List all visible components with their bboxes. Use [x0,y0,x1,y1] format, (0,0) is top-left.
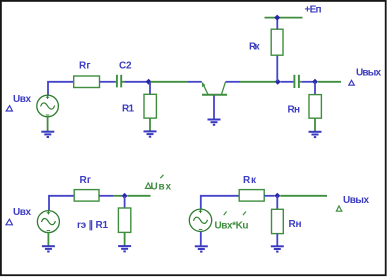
wire node down [124,196,126,208]
transistor Q1 base wire to ground [213,96,215,120]
emitter pin wire (blue) [188,81,202,83]
wire C3 to output node [302,81,313,83]
node junction dot collector/Rk [275,79,281,85]
svg-text:Rн: Rн [289,219,302,230]
node junction dot output [312,79,318,85]
svg-text:Uвых: Uвых [343,195,369,206]
source V1 circle [37,95,59,117]
wire node to U'vx (green) [128,195,151,197]
ground under re||R1 [118,246,131,251]
wire V3 to ground (blue) [200,232,202,247]
resistor Rn [309,95,321,119]
+Ep supply rail [265,17,303,19]
node junction dot Rk2/Rn2 [274,193,280,199]
svg-text:R1: R1 [122,103,134,114]
node triangle input [6,106,12,111]
source V1 plus mark [46,96,49,100]
ground under V1 [41,132,54,137]
resistor re||R1 [118,208,130,232]
svg-text:Rг: Rг [79,61,91,72]
wire Rk2 to node [264,195,274,197]
node triangle input bottom [6,219,12,225]
transistor Q1 emitter arrow [202,82,206,87]
resistor Rn2 [272,209,284,233]
wire R1 to ground [149,118,151,131]
wire Rg to C2 [100,81,116,83]
prime mark 1 [224,212,227,216]
source V2 plus mark [47,211,50,215]
node triangle output bottom (green) [336,206,341,211]
ground under V3 [195,246,208,251]
source V2 minus mark [47,230,50,232]
source V1 minus mark [46,114,49,116]
node triangle U'vx (green) [145,183,151,189]
prime mark 2 [243,212,246,216]
svg-text:Rн: Rн [288,104,301,115]
svg-text:Uвх: Uвх [13,207,31,218]
source V1 sine [41,103,55,109]
source V3 minus mark [199,228,202,230]
wire V2 to ground [47,232,49,246]
transistor Q1 emitter [202,83,207,94]
wire node down [276,196,278,210]
svg-text:Uвх*Ku: Uвх*Ku [215,220,249,231]
collector pin wire (blue) [225,81,240,83]
ground under Q1 base [208,120,221,125]
wire to node (green) [113,195,122,197]
resistor Rk [271,29,283,55]
wire collector to Rk node (green) [240,81,275,83]
capacitor C3 [293,75,302,88]
node dot +Ep [274,15,280,21]
wire Rk bottom [276,55,278,81]
prime mark U'vx [160,175,163,178]
wire Rk top [276,18,278,30]
source V3 sine [194,217,208,223]
node triangle output top [349,80,355,85]
wire node to R1 [149,82,151,94]
source V1 wire up [48,82,74,95]
node junction dot re||R1 [122,193,128,199]
transistor Q1 base bar [202,94,227,96]
source V3 wire up [201,196,239,209]
svg-text:C2: C2 [119,60,132,71]
source V3 plus mark [199,210,202,214]
ground under R1 [144,131,157,136]
svg-text:Uвх: Uвх [151,181,172,192]
source V2 wire up [49,196,74,210]
wire Rn to ground [314,118,316,131]
wire Rg2 to node (blue) [99,195,113,197]
wire node to Uvyh (green) [280,195,327,197]
resistor Rk2 [239,190,264,202]
svg-text:Rк: Rк [249,42,260,53]
source V2 sine [41,219,55,225]
source V2 circle [37,211,59,233]
resistor Rg [74,76,100,88]
wire re||R1 to ground [124,232,126,246]
ground under Rn [309,132,322,137]
resistor Rg2 [74,190,99,202]
ground under V2 [42,246,55,251]
source V3 circle [189,209,211,231]
output wire (green) [318,81,341,83]
wire node to transistor emitter (green) [151,81,189,83]
svg-text:Rк: Rк [243,175,257,186]
wire source to ground [47,117,49,132]
capacitor C2 [115,75,125,88]
wire node to Rn [314,82,316,95]
svg-text:Uвых: Uвых [356,68,381,79]
node junction dot C2/R1 [146,79,152,85]
svg-text:Rг: Rг [80,175,92,186]
svg-text:rэ ∥ R1: rэ ∥ R1 [77,220,108,231]
wire Rn2 to ground (blue) [276,234,278,247]
ground under Rn2 [271,246,284,251]
resistor R1 [144,94,156,118]
svg-text:Uвх: Uвх [13,94,31,105]
wire C2 to node [125,81,147,83]
svg-text:+Eп: +Eп [305,5,322,16]
transistor Q1 collector [222,82,226,94]
wire node to C3 [281,81,294,83]
